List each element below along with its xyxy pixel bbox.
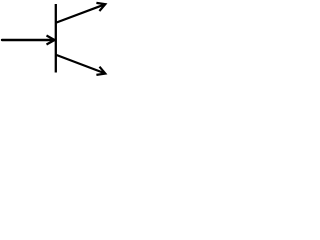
wire: output arrow lower right xyxy=(57,55,106,75)
wire: output arrow upper right xyxy=(57,3,106,23)
node: vertical bus bar xyxy=(55,4,57,73)
wire: input arrow from left xyxy=(2,36,55,45)
